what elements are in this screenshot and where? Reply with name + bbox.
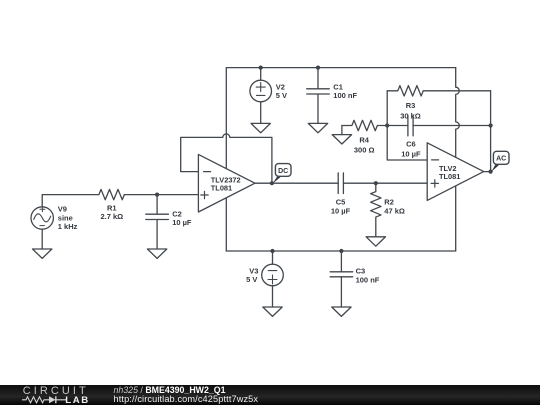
op-amp U1 TLV2372 bbox=[198, 154, 255, 212]
logo resistor-diode glyph bbox=[22, 395, 68, 405]
feedback wire U1 output to - input (with hop) bbox=[181, 134, 272, 183]
svg-text:300 Ω: 300 Ω bbox=[354, 146, 375, 155]
svg-text:R3: R3 bbox=[406, 101, 416, 110]
svg-text:100 nF: 100 nF bbox=[333, 91, 357, 100]
U2 power rail wire with hops over R3 and C6 wires bbox=[456, 68, 460, 251]
svg-text:DC: DC bbox=[278, 168, 288, 175]
R1 labels bbox=[100, 203, 123, 220]
CircuitLab logo bbox=[23, 385, 89, 397]
top supply rail wire bbox=[226, 67, 455, 69]
resistor R4 bbox=[342, 120, 387, 130]
svg-text:1 kHz: 1 kHz bbox=[58, 222, 78, 231]
svg-text:C1: C1 bbox=[333, 82, 343, 91]
node U1 output bbox=[270, 181, 274, 185]
wire R1 to op-amp U1 + input bbox=[124, 194, 198, 196]
logo LAB text bbox=[65, 395, 90, 405]
svg-text:V2: V2 bbox=[276, 82, 285, 91]
svg-text:2.7 kΩ: 2.7 kΩ bbox=[100, 212, 123, 221]
wire V9 bottom to ground bbox=[41, 229, 43, 249]
wire V9 top to R1 bbox=[42, 195, 99, 207]
ground below V3 bbox=[263, 307, 282, 316]
svg-text:100 nF: 100 nF bbox=[356, 275, 380, 284]
V2 labels bbox=[276, 82, 287, 100]
svg-text:V9: V9 bbox=[58, 205, 67, 214]
node V3 top bbox=[270, 249, 274, 253]
capacitor C1 bbox=[307, 68, 330, 124]
ground below C2 bbox=[147, 249, 166, 258]
U1 power rail wire (V+ to V-) bbox=[225, 68, 227, 251]
DC probe label bbox=[273, 164, 292, 184]
U1 labels bbox=[211, 175, 241, 192]
footer bar bbox=[0, 385, 540, 405]
schematic url line bbox=[114, 394, 259, 404]
svg-text:C3: C3 bbox=[356, 267, 366, 276]
wire U1 output to C5 bbox=[255, 182, 338, 184]
svg-text:10 µF: 10 µF bbox=[401, 149, 421, 158]
svg-text:AC: AC bbox=[496, 156, 506, 163]
AC probe label bbox=[491, 151, 509, 172]
R2 labels bbox=[384, 198, 405, 216]
svg-text:10 µF: 10 µF bbox=[172, 218, 192, 227]
ground below V9 bbox=[33, 249, 52, 258]
R4 labels bbox=[354, 136, 375, 155]
wire U2 output bbox=[484, 171, 491, 173]
svg-text:30 kΩ: 30 kΩ bbox=[400, 111, 421, 120]
V9 label bbox=[58, 205, 78, 232]
svg-text:sine: sine bbox=[58, 213, 73, 222]
ground below R2 bbox=[366, 237, 385, 246]
svg-text:C5: C5 bbox=[336, 198, 346, 207]
svg-text:R2: R2 bbox=[384, 198, 394, 207]
svg-text:V3: V3 bbox=[249, 266, 258, 275]
wire right feedback vertical to U2 output bbox=[490, 91, 492, 172]
node R4/C6 bbox=[385, 123, 389, 127]
resistor R3 bbox=[387, 86, 490, 96]
node junction R1/C2 bbox=[155, 193, 159, 197]
ground below C1 bbox=[308, 123, 327, 132]
svg-text:10 µF: 10 µF bbox=[331, 206, 351, 215]
svg-text:TL081: TL081 bbox=[211, 184, 232, 193]
R3 labels bbox=[400, 101, 421, 120]
node U2 output bbox=[489, 170, 493, 174]
capacitor C3 bbox=[330, 251, 353, 307]
capacitor C5 bbox=[338, 173, 427, 194]
node C1 top bbox=[316, 66, 320, 70]
bottom supply rail wire bbox=[226, 250, 455, 252]
schematic title line bbox=[114, 385, 226, 395]
C6 labels bbox=[401, 140, 421, 159]
svg-text:C6: C6 bbox=[406, 140, 416, 149]
svg-text:5 V: 5 V bbox=[246, 275, 257, 284]
wire left feedback vertical to U2 - input bbox=[387, 91, 427, 160]
svg-text:TL081: TL081 bbox=[439, 172, 460, 181]
node C5/R2 bbox=[374, 181, 378, 185]
C1 labels bbox=[333, 82, 357, 100]
capacitor C6 bbox=[387, 115, 490, 136]
C3 labels bbox=[356, 267, 380, 285]
voltage source V9 bbox=[31, 207, 53, 229]
U2 labels bbox=[439, 164, 460, 181]
ground below V2 bbox=[251, 123, 270, 132]
svg-text:5 V: 5 V bbox=[276, 91, 287, 100]
C2 labels bbox=[172, 210, 192, 227]
voltage source V3 bbox=[262, 251, 284, 307]
svg-text:R4: R4 bbox=[359, 136, 369, 145]
node C6/R3 right bbox=[489, 123, 493, 127]
C5 labels bbox=[331, 198, 351, 216]
node C3 top bbox=[339, 249, 343, 253]
resistor R1 bbox=[99, 189, 124, 199]
ground below C3 bbox=[332, 307, 351, 316]
ground left of R4 bbox=[332, 126, 351, 145]
resistor R2 bbox=[371, 183, 381, 237]
capacitor C2 bbox=[146, 195, 169, 249]
V3 labels bbox=[246, 266, 258, 284]
node V2 top bbox=[259, 66, 263, 70]
op-amp U2 TLV2 bbox=[427, 143, 484, 201]
voltage source V2 bbox=[250, 68, 272, 124]
svg-text:47 kΩ: 47 kΩ bbox=[384, 206, 405, 215]
